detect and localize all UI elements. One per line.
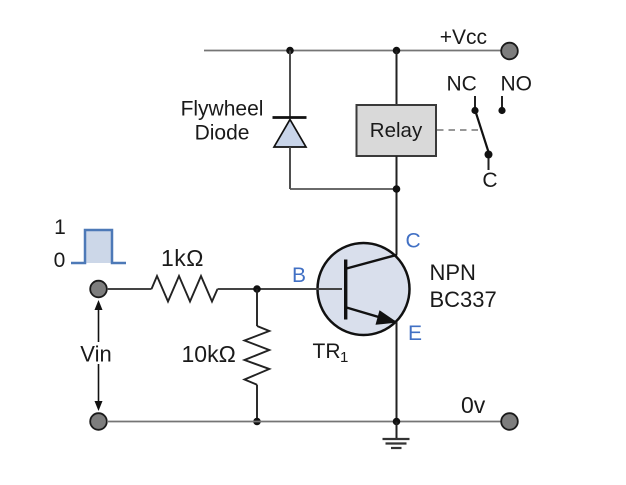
wire diode top xyxy=(289,51,291,118)
relay K1 xyxy=(357,105,437,156)
svg-text:1kΩ: 1kΩ xyxy=(161,245,204,271)
node junction on rail at diode branch xyxy=(286,47,294,55)
label logic 1 xyxy=(54,216,66,239)
label Flywheel Diode xyxy=(181,98,264,145)
label TR1 xyxy=(313,340,349,366)
label 1kOhm xyxy=(161,245,204,271)
label B xyxy=(292,264,306,287)
svg-text:10kΩ: 10kΩ xyxy=(182,341,236,367)
label BC337 xyxy=(430,287,497,312)
wire dashed relay actuation xyxy=(437,129,479,131)
svg-text:1: 1 xyxy=(54,216,66,239)
svg-text:0: 0 xyxy=(54,249,66,272)
label NPN xyxy=(430,260,476,285)
wire relay bottom to collector xyxy=(396,156,398,255)
wire divider down xyxy=(256,289,258,326)
wire diode bottom xyxy=(289,147,291,189)
label NO xyxy=(501,73,533,96)
resistor R1 1k xyxy=(152,276,218,302)
node junction on rail at relay branch xyxy=(393,47,401,55)
node NC contact xyxy=(471,107,478,114)
label C collector xyxy=(406,230,421,253)
wire resistor to base xyxy=(218,288,343,290)
svg-text:Relay: Relay xyxy=(370,119,423,142)
svg-text:B: B xyxy=(292,264,306,287)
node emitter to rail xyxy=(393,418,401,426)
terminal +Vcc xyxy=(501,43,518,60)
ground xyxy=(383,422,410,449)
svg-text:Diode: Diode xyxy=(195,122,250,145)
wire emitter down xyxy=(396,322,398,422)
svg-text:E: E xyxy=(408,322,422,345)
svg-text:Flywheel: Flywheel xyxy=(181,98,264,121)
node base divider junction xyxy=(253,285,261,293)
svg-text:C: C xyxy=(482,169,497,192)
label C common xyxy=(482,169,497,192)
svg-text:C: C xyxy=(406,230,421,253)
Vin measurement arrow xyxy=(95,300,103,411)
node divider bottom junction xyxy=(253,418,261,426)
wire bottom 0v rail xyxy=(107,421,501,423)
node NO contact xyxy=(498,107,505,114)
node junction relay/diode/collector xyxy=(393,185,401,193)
label logic 0 xyxy=(54,249,66,272)
diode D1 flywheel xyxy=(273,118,307,148)
terminal input Vin top xyxy=(90,281,107,298)
svg-text:Vin: Vin xyxy=(80,342,111,367)
svg-text:BC337: BC337 xyxy=(430,287,497,312)
transistor TR1 body xyxy=(318,243,410,335)
label 0v xyxy=(461,392,486,418)
label 10kOhm xyxy=(182,341,236,367)
wire input to resistor xyxy=(107,288,152,290)
switch armature xyxy=(476,113,489,152)
wire C stub xyxy=(488,158,490,170)
label +Vcc xyxy=(440,26,487,49)
label E emitter xyxy=(408,322,422,345)
label Vin xyxy=(78,342,115,367)
svg-text:NPN: NPN xyxy=(430,260,476,285)
wire jumper diode to collector xyxy=(290,188,397,190)
wire top +Vcc rail xyxy=(204,50,501,52)
wire divider to ground rail xyxy=(256,385,258,422)
terminal input bottom xyxy=(90,413,107,430)
resistor R2 10k xyxy=(245,326,270,385)
node C pivot xyxy=(485,151,493,159)
wire relay top xyxy=(396,51,398,106)
label NC xyxy=(447,73,477,96)
svg-text:TR: TR xyxy=(313,340,341,363)
terminal 0v xyxy=(501,413,518,430)
svg-text:+Vcc: +Vcc xyxy=(440,26,487,49)
pulse waveform input signal xyxy=(71,230,126,263)
wire NO stub xyxy=(501,96,503,108)
svg-text:NC: NC xyxy=(447,73,477,96)
svg-text:NO: NO xyxy=(501,73,533,96)
wire NC stub xyxy=(474,96,476,108)
svg-text:1: 1 xyxy=(340,349,348,366)
svg-text:0v: 0v xyxy=(461,392,486,418)
